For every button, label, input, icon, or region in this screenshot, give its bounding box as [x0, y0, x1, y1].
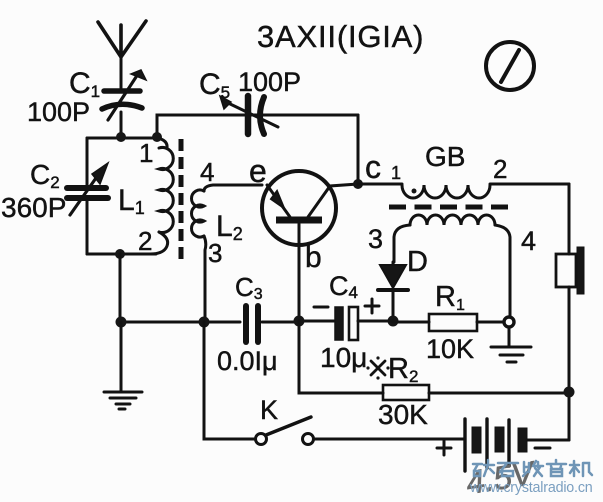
- node antenna junction: [116, 132, 126, 142]
- figure number marker: [486, 42, 534, 90]
- watermark char shou: [523, 461, 543, 476]
- wire base down to R2 rail: [299, 321, 383, 393]
- switch K: [204, 322, 464, 445]
- svg-text:0.0Iμ: 0.0Iμ: [217, 346, 278, 376]
- node battery/R2: [564, 387, 575, 398]
- svg-text:GB: GB: [425, 141, 465, 172]
- transistor V 3AX11: [262, 171, 358, 321]
- watermark char yin: [547, 460, 566, 476]
- capacitor C5: [220, 96, 278, 134]
- wire node to C5: [157, 115, 358, 137]
- wire speaker branch: [568, 184, 571, 440]
- watermark: [473, 460, 592, 476]
- node tank top right: [152, 132, 162, 142]
- speaker B: [556, 247, 584, 294]
- svg-text:3AXII(IGIA): 3AXII(IGIA): [257, 19, 424, 54]
- ground left: [104, 322, 142, 409]
- node tank bottom: [115, 249, 125, 259]
- svg-text:30K: 30K: [378, 399, 428, 430]
- capacitor C4: [299, 307, 393, 340]
- capacitor C2: [67, 138, 108, 254]
- svg-text:e: e: [249, 153, 267, 189]
- wire antenna lead: [120, 57, 123, 88]
- node mid left: [116, 317, 127, 328]
- inductor L1: [150, 138, 173, 254]
- svg-text:3: 3: [368, 224, 383, 254]
- wire tank bottom to mid rail: [119, 254, 122, 322]
- svg-text:D: D: [407, 246, 428, 278]
- watermark char shi: [498, 463, 518, 476]
- capacitor C3: [204, 306, 299, 342]
- svg-text:2: 2: [138, 226, 152, 256]
- label plus (battery): [437, 441, 451, 455]
- node diode/R1: [388, 316, 399, 327]
- node mid C3: [199, 317, 210, 328]
- resistor R2: [383, 385, 569, 400]
- core T1: [179, 139, 184, 260]
- svg-text:4: 4: [200, 157, 214, 187]
- capacitor C1: [102, 70, 146, 120]
- label R2 with mark: [366, 356, 389, 379]
- wire C5 to collector node: [357, 115, 360, 184]
- inductor L2: [192, 185, 263, 322]
- svg-text:2: 2: [493, 154, 507, 184]
- svg-text:K: K: [260, 395, 278, 425]
- wire mid rail left: [121, 321, 204, 324]
- node base: [294, 316, 305, 327]
- wire bottom tank rail: [87, 253, 156, 256]
- ground right: [491, 327, 531, 362]
- label plus (C4): [365, 299, 379, 313]
- node collector: [353, 179, 363, 189]
- svg-text:10μ: 10μ: [320, 342, 367, 373]
- label minus (battery): [535, 447, 550, 450]
- svg-text:100P: 100P: [27, 97, 90, 127]
- svg-text:www.crystalradio.cn: www.crystalradio.cn: [469, 480, 593, 496]
- transformer GB primary: [358, 184, 569, 198]
- wire top tank rail: [87, 137, 157, 140]
- watermark char kuang: [473, 460, 494, 476]
- resistor R1: [393, 314, 504, 331]
- core GB: [389, 205, 513, 210]
- transformer GB secondary: [394, 215, 510, 318]
- svg-text:100P: 100P: [238, 67, 301, 97]
- diode D: [378, 262, 408, 321]
- svg-text:360P: 360P: [1, 192, 66, 223]
- node R1 right (donut): [504, 317, 514, 327]
- watermark char ji: [570, 461, 592, 476]
- svg-text:10K: 10K: [426, 334, 474, 364]
- svg-text:c: c: [365, 149, 381, 185]
- battery 4.5V: [465, 419, 569, 471]
- svg-text:b: b: [305, 241, 322, 274]
- antenna: [98, 21, 146, 57]
- svg-text:3: 3: [208, 238, 222, 268]
- wire C1 to node: [120, 112, 123, 137]
- winding dot: [412, 189, 417, 194]
- svg-text:4: 4: [521, 226, 536, 256]
- svg-text:1: 1: [391, 163, 401, 183]
- svg-text:1: 1: [139, 138, 153, 168]
- label minus (C4): [314, 306, 328, 309]
